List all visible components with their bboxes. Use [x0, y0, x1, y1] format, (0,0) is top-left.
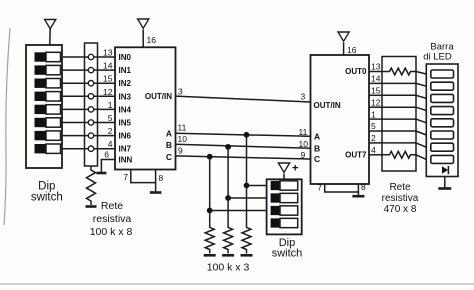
wire: S1 row 7 to resistor network to IC1 pin 2 [62, 135, 115, 137]
svg-text:7: 7 [317, 183, 322, 193]
LED symbol [442, 166, 448, 173]
S1 switch 3 [35, 79, 47, 88]
svg-text:8: 8 [361, 182, 366, 192]
svg-text:IN0: IN0 [119, 53, 132, 62]
wire: line B down to resistor [227, 147, 229, 224]
ground (LED bar) [438, 187, 451, 190]
wire: S1 row 1 to resistor network to IC1 pin 13 [62, 56, 115, 58]
IC1 pin 6 INN wire to ground [101, 160, 115, 173]
svg-text:IN4: IN4 [119, 105, 132, 114]
resistor 100k #3 [205, 223, 214, 253]
svg-text:16: 16 [147, 35, 157, 45]
svg-text:15: 15 [371, 86, 381, 96]
resistor network R1 (Rete resistiva 100 k x 8) SIL package [85, 43, 98, 166]
ground (100k #2) [222, 254, 234, 257]
svg-text:+: + [292, 163, 298, 175]
S2 switch 4 [271, 218, 280, 227]
ground (IC1 pin 6) [96, 172, 106, 175]
LED segment 7 [431, 143, 454, 151]
wire: LED bar to ground [444, 177, 446, 189]
wire: S1 row 6 to resistor network to IC1 pin 5 [62, 122, 115, 124]
S1 switch 4 [35, 92, 47, 101]
LED segment 3 [431, 94, 454, 102]
wire: R2 row 6 to LED bar [416, 131, 426, 135]
DIP switch S2 package (4-way) [267, 179, 302, 234]
svg-text:B: B [166, 140, 172, 150]
svg-text:C: C [166, 152, 172, 162]
wire: S1 row 8 to resistor network to IC1 pin 4 [62, 148, 115, 150]
svg-text:3: 3 [178, 87, 183, 97]
LED segment 5 [431, 119, 454, 127]
ground (100k #1) [241, 254, 253, 257]
R1 pin circle row 4 [88, 94, 93, 99]
svg-text:2: 2 [108, 126, 113, 136]
node junction to S2 row 2 [225, 195, 231, 201]
DIP switch S1 package (8-way) [26, 45, 62, 168]
wire: line C down to resistor [209, 157, 211, 224]
S1 switch 7 [35, 131, 47, 140]
wire: R2 row 3 to LED bar [416, 95, 426, 98]
S2 switch 3 [271, 206, 280, 215]
IC1 pin 16 supply stem [142, 30, 144, 48]
svg-text:8: 8 [159, 173, 164, 183]
svg-text:C: C [314, 154, 320, 164]
wire: IC2 pin 4 to resistor network R2 row 8 [369, 154, 382, 156]
R1 pin circle row 1 [88, 54, 93, 59]
svg-text:INN: INN [119, 156, 133, 165]
wire: IC2 pin 13 to resistor network R2 row 1 [369, 71, 382, 73]
svg-text:12: 12 [103, 87, 113, 97]
wire: IC2 pin 5 to resistor network R2 row 6 [369, 130, 382, 132]
LED segment 2 [431, 82, 454, 90]
wire OUT/IN: IC1 pin 3 to IC2 pin 3 [176, 96, 311, 102]
S1 switch 2 [35, 65, 47, 74]
wire: +V to S2 [283, 174, 285, 180]
svg-text:Rete: Rete [101, 200, 123, 212]
svg-text:4: 4 [371, 145, 376, 155]
wire: junction to DIP switch S2 row 3 [210, 210, 267, 212]
svg-text:4: 4 [108, 139, 113, 149]
svg-text:IN5: IN5 [119, 119, 132, 128]
svg-text:OUT0: OUT0 [345, 67, 367, 76]
op IC1 (multiplexer) body [115, 47, 176, 169]
supply +V symbol (left, DIP switch 1) [45, 20, 56, 29]
svg-text:di LED: di LED [423, 52, 452, 63]
LED segment 1 [431, 70, 454, 78]
R2 resistor row 8 [382, 151, 417, 158]
svg-text:OUT/IN: OUT/IN [145, 92, 172, 101]
svg-text:OUT7: OUT7 [345, 150, 367, 159]
svg-text:Rete: Rete [389, 182, 411, 193]
svg-text:switch: switch [272, 248, 303, 260]
R2 wire row 5 [382, 118, 417, 120]
R1 pin circle row 7 [88, 133, 93, 138]
svg-text:IN3: IN3 [119, 92, 132, 101]
IC2 pins 7 8 to ground [325, 184, 359, 192]
LED bar package [426, 64, 458, 177]
svg-text:100 k x 3: 100 k x 3 [207, 262, 250, 274]
svg-text:OUT/IN: OUT/IN [314, 101, 341, 110]
node junction to S2 row 1 [244, 183, 250, 189]
svg-text:14: 14 [103, 61, 113, 71]
wire: R2 row 7 to LED bar [416, 143, 426, 147]
LED segment 8 [431, 155, 454, 163]
wire A: IC1 pin 11 to IC2 pin 11 [176, 133, 311, 136]
scan edge artifact left [4, 28, 10, 225]
wire: IC2 pin 1 to resistor network R2 row 5 [369, 118, 382, 120]
svg-text:IN7: IN7 [119, 145, 132, 154]
resistor 100k #2 [224, 223, 233, 253]
svg-text:5: 5 [371, 121, 376, 131]
wire: IC2 pin 15 to resistor network R2 row 3 [369, 94, 382, 96]
svg-text:100 k x 8: 100 k x 8 [90, 226, 133, 238]
svg-text:13: 13 [371, 62, 381, 72]
R2 wire row 2 [382, 82, 417, 84]
svg-text:5: 5 [108, 113, 113, 123]
svg-text:13: 13 [103, 48, 113, 58]
wire: R2 row 4 to LED bar [416, 107, 426, 110]
R2 resistor row 1 [382, 68, 417, 75]
svg-text:1: 1 [371, 109, 376, 119]
svg-text:3: 3 [301, 92, 306, 102]
svg-text:9: 9 [301, 150, 306, 160]
R2 wire row 3 [382, 94, 417, 96]
R1 pin circle row 3 [88, 81, 93, 86]
ground (IC2) [352, 195, 364, 198]
R1 pin circle row 2 [88, 67, 93, 72]
S2 switch 2 [271, 193, 280, 202]
wire: S1 row 5 to resistor network to IC1 pin 1 [62, 108, 115, 110]
wire: IC2 pin 12 to resistor network R2 row 4 [369, 106, 382, 108]
wire: R2 row 5 to LED bar [416, 119, 426, 123]
node junction on line A [244, 132, 250, 138]
R1 pin circle row 6 [88, 120, 93, 125]
svg-text:11: 11 [178, 123, 187, 133]
wire: R2 row 8 to LED bar [416, 155, 426, 160]
svg-text:16: 16 [347, 45, 357, 55]
supply +V symbol (DIP switch 2) [278, 163, 289, 172]
wire C: IC1 pin 9 to IC2 pin 9 [176, 156, 311, 159]
wire: S1 row 4 to resistor network to IC1 pin 12 [62, 95, 115, 97]
wire: junction to DIP switch S2 row 2 [228, 197, 267, 199]
svg-text:2: 2 [371, 133, 376, 143]
svg-text:6: 6 [104, 150, 109, 160]
resistor network R2 (Rete resistiva 470 x 8) package [382, 57, 416, 172]
S2 switch 1 [271, 181, 280, 190]
svg-text:B: B [314, 143, 320, 153]
svg-text:IN2: IN2 [119, 79, 132, 88]
svg-text:10: 10 [299, 139, 309, 149]
LED segment 6 [431, 131, 454, 139]
LED segment 4 [431, 107, 454, 115]
IC2 pin 16 supply stem [343, 43, 345, 56]
R1 pin circle row 5 [88, 107, 93, 112]
ground (IC1) [150, 191, 162, 194]
wire B: IC1 pin 10 to IC2 pin 10 [176, 144, 311, 148]
svg-text:A: A [314, 132, 320, 142]
wire: IC2 pin 2 to resistor network R2 row 7 [369, 142, 382, 144]
svg-text:IN1: IN1 [119, 66, 132, 75]
S1 switch 6 [35, 118, 47, 127]
S1 switch 5 [35, 105, 47, 114]
S1 switch 8 [35, 144, 47, 153]
R2 wire row 4 [382, 106, 417, 108]
R2 wire row 6 [382, 130, 417, 132]
S1 switch 1 [35, 52, 47, 61]
svg-text:470 x 8: 470 x 8 [384, 204, 417, 215]
svg-text:1: 1 [108, 100, 113, 110]
wire: R2 row 1 to LED bar [416, 72, 426, 75]
supply +V symbol (IC1 pin 16) [138, 19, 149, 28]
svg-text:11: 11 [299, 127, 308, 137]
wire: R2 row 2 to LED bar [416, 83, 426, 86]
svg-text:switch: switch [31, 192, 63, 204]
scan edge artifact bottom [0, 283, 474, 285]
svg-text:9: 9 [178, 146, 183, 156]
node junction on line C [207, 154, 213, 160]
ground (R1 common) [86, 205, 97, 208]
resistor 100k #1 [242, 223, 251, 253]
wire: IC2 pin 14 to resistor network R2 row 2 [369, 82, 382, 84]
supply +V symbol (IC2 pin 16) [338, 32, 349, 41]
svg-text:resistiva: resistiva [382, 193, 419, 204]
svg-text:15: 15 [103, 74, 113, 84]
svg-text:14: 14 [371, 74, 381, 84]
op IC2 (multiplexer) body [311, 55, 370, 184]
wire: line A down to resistor [246, 135, 248, 224]
node junction on line B [225, 144, 231, 150]
node junction to S2 row 3 [207, 208, 213, 214]
IC1 pins 7 8 to ground [131, 170, 156, 183]
svg-text:7: 7 [123, 172, 128, 182]
svg-text:resistiva: resistiva [93, 213, 132, 225]
wire: S1 row 2 to resistor network to IC1 pin 14 [62, 69, 115, 71]
svg-text:A: A [166, 129, 172, 139]
svg-text:IN6: IN6 [119, 132, 132, 141]
ground (100k #3) [204, 254, 216, 257]
R1 common resistor to ground [87, 166, 96, 205]
svg-text:10: 10 [178, 134, 188, 144]
wire: S1 row 3 to resistor network to IC1 pin 15 [62, 82, 115, 84]
R2 wire row 7 [382, 142, 417, 144]
svg-text:12: 12 [371, 97, 381, 107]
wire: junction to DIP switch S2 row 1 [247, 185, 267, 187]
R1 pin circle row 8 [88, 146, 93, 151]
wire: +V to DIP switch 1 [49, 28, 51, 46]
